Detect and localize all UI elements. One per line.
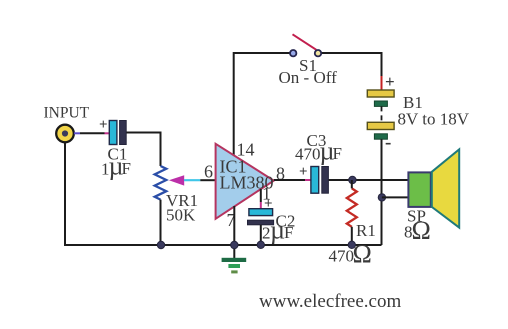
wire top rail right segment [321, 52, 382, 54]
node R1 bottom [348, 241, 355, 248]
svg-text:+: + [385, 72, 395, 91]
resistor R1 [347, 188, 357, 226]
input jack J1 [56, 125, 74, 143]
wire battery bottom drop [381, 139, 383, 245]
svg-text:+: + [264, 196, 273, 212]
wire pin8 to C3 [274, 179, 305, 181]
svg-text:6: 6 [204, 162, 213, 182]
capacitor C2 [248, 209, 274, 225]
capacitor C3 [311, 167, 329, 194]
wire pin1 to C2 [260, 189, 262, 202]
wire top rail left segment [234, 52, 291, 54]
svg-text:+: + [99, 117, 108, 133]
speaker SP [408, 149, 459, 227]
node pin7 ground [231, 241, 238, 248]
ground [222, 245, 247, 273]
svg-text:14: 14 [237, 140, 255, 160]
svg-text:INPUT: INPUT [44, 105, 90, 122]
wire jack drop [64, 143, 66, 245]
wire pin14 riser [233, 52, 235, 156]
wire bottom rail [64, 244, 382, 246]
svg-text:On - Off: On - Off [279, 68, 338, 87]
svg-text:µ: µ [270, 216, 285, 245]
svg-text:Ω: Ω [412, 216, 431, 245]
node C3 out [349, 176, 356, 183]
svg-text:470: 470 [329, 247, 355, 266]
node battery speaker [378, 194, 385, 201]
svg-text:F: F [122, 159, 131, 178]
svg-text:R1: R1 [356, 221, 376, 240]
svg-text:470: 470 [295, 145, 321, 164]
wire jack to C1 [74, 132, 80, 134]
svg-text:50K: 50K [166, 206, 196, 225]
node C2 ground [257, 241, 264, 248]
wire C2 bottom [260, 225, 262, 245]
svg-text:F: F [333, 144, 342, 163]
capacitor C1 [109, 121, 126, 145]
op-amp IC1 LM380 [216, 144, 274, 219]
svg-text:+: + [299, 164, 308, 180]
svg-text:www.elecfree.com: www.elecfree.com [259, 291, 401, 312]
wire speaker lower [382, 196, 409, 198]
svg-text:-: - [385, 132, 391, 153]
node VR1 bottom [157, 241, 164, 248]
wire VR1 bottom [160, 200, 162, 245]
svg-text:F: F [284, 223, 293, 242]
wire battery top drop [381, 52, 383, 76]
wire wiper to pin6 [184, 179, 200, 181]
switch S1 [290, 34, 321, 56]
wire pin7 [233, 206, 235, 245]
svg-text:8V to 18V: 8V to 18V [398, 110, 470, 129]
battery B1 [367, 90, 394, 139]
wire C3 to speaker [329, 179, 409, 181]
potentiometer VR1 50K [155, 166, 167, 200]
wire C1 to VR1 [127, 133, 161, 167]
VR1 wiper arrow [169, 175, 184, 185]
